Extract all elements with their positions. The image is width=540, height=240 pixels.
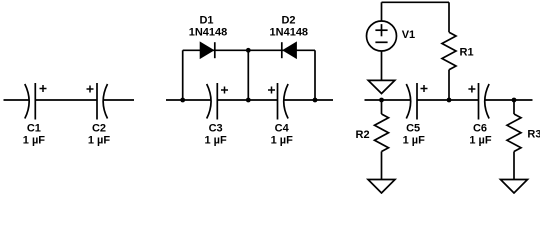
wire <box>513 100 515 114</box>
label D1 <box>199 15 213 27</box>
svg-text:1N4148: 1N4148 <box>270 27 309 39</box>
value label 1N4148 <box>189 27 228 39</box>
label C6 <box>473 123 487 135</box>
wire <box>217 99 277 101</box>
ground <box>368 180 395 194</box>
svg-text:R3: R3 <box>527 129 540 141</box>
label R2 <box>356 129 370 141</box>
capacitor C4 <box>268 83 288 120</box>
wire <box>35 99 97 101</box>
junction <box>180 98 185 103</box>
resistor R2 <box>375 114 389 152</box>
value label 1N4148 <box>270 27 309 39</box>
wire <box>448 2 450 32</box>
label C1 <box>27 123 41 135</box>
wire <box>314 50 316 100</box>
svg-text:C5: C5 <box>406 123 420 135</box>
svg-text:R2: R2 <box>356 129 370 141</box>
wire <box>103 99 134 101</box>
junction <box>246 98 251 103</box>
svg-text:1 µF: 1 µF <box>23 135 46 147</box>
svg-text:D2: D2 <box>281 15 295 27</box>
label C4 <box>275 123 290 135</box>
svg-text:1N4148: 1N4148 <box>189 27 228 39</box>
ground <box>368 80 395 93</box>
value label 1 µF <box>204 135 227 147</box>
wire <box>381 152 383 180</box>
label R1 <box>460 47 474 59</box>
svg-text:C6: C6 <box>473 123 487 135</box>
capacitor C2 <box>87 83 108 120</box>
wire <box>513 152 515 180</box>
wire <box>166 99 211 101</box>
wire <box>4 99 30 101</box>
wire <box>448 70 450 100</box>
value label 1 µF <box>88 135 111 147</box>
svg-text:1 µF: 1 µF <box>271 135 294 147</box>
diode D1 <box>200 42 215 58</box>
svg-text:1 µF: 1 µF <box>403 135 426 147</box>
label C3 <box>209 123 223 135</box>
svg-text:C4: C4 <box>275 123 290 135</box>
diode D2 <box>282 42 297 58</box>
label D2 <box>281 15 295 27</box>
wire <box>381 2 383 21</box>
wire <box>484 99 532 101</box>
wire <box>381 100 383 114</box>
svg-text:V1: V1 <box>402 29 415 41</box>
resistor R3 <box>507 114 521 152</box>
value label 1 µF <box>469 135 492 147</box>
junction <box>379 98 384 103</box>
label R3 <box>527 129 540 141</box>
label V1 <box>402 29 415 41</box>
svg-text:R1: R1 <box>460 47 474 59</box>
junction <box>313 98 318 103</box>
voltage source V1 <box>367 21 397 51</box>
svg-text:C3: C3 <box>209 123 223 135</box>
label C2 <box>92 123 106 135</box>
capacitor C5 <box>406 83 427 120</box>
label C5 <box>406 123 420 135</box>
svg-text:C2: C2 <box>92 123 106 135</box>
wire <box>381 51 383 80</box>
svg-text:1 µF: 1 µF <box>88 135 111 147</box>
junction <box>512 98 517 103</box>
wire <box>183 49 315 51</box>
resistor R1 <box>442 32 456 69</box>
value label 1 µF <box>403 135 426 147</box>
svg-text:1 µF: 1 µF <box>204 135 227 147</box>
capacitor C3 <box>207 83 228 120</box>
svg-text:C1: C1 <box>27 123 41 135</box>
svg-text:D1: D1 <box>199 15 213 27</box>
ground <box>501 180 528 194</box>
junction <box>447 98 452 103</box>
wire <box>365 99 412 101</box>
junction <box>246 48 251 53</box>
wire <box>283 99 333 101</box>
value label 1 µF <box>23 135 46 147</box>
svg-text:1 µF: 1 µF <box>469 135 492 147</box>
wire <box>382 1 450 3</box>
value label 1 µF <box>271 135 294 147</box>
wire <box>417 99 479 101</box>
wire <box>247 50 249 100</box>
wire <box>182 50 184 100</box>
capacitor C6 <box>468 83 489 120</box>
capacitor C1 <box>25 83 47 120</box>
